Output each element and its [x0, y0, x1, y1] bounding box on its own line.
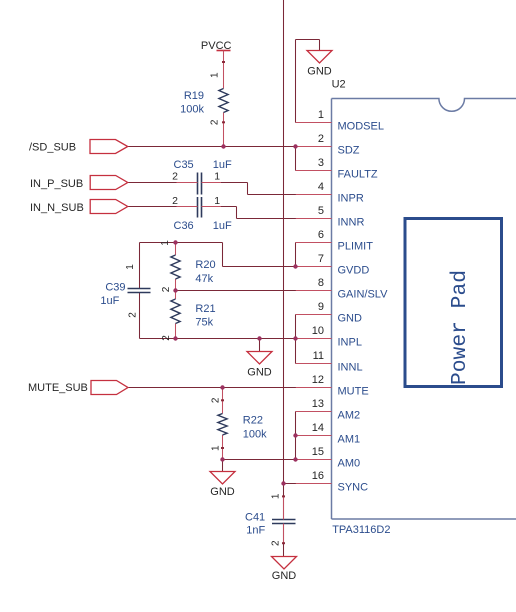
- svg-text:1uF: 1uF: [213, 159, 232, 171]
- svg-text:1uF: 1uF: [213, 220, 232, 232]
- svg-text:15: 15: [312, 446, 324, 458]
- svg-text:1uF: 1uF: [100, 295, 119, 307]
- svg-text:5: 5: [318, 205, 324, 217]
- svg-text:TPA3116D2: TPA3116D2: [332, 524, 390, 536]
- svg-text:MUTE_SUB: MUTE_SUB: [28, 382, 88, 394]
- svg-text:2: 2: [161, 335, 172, 341]
- svg-text:PLIMIT: PLIMIT: [338, 241, 374, 253]
- svg-text:GVDD: GVDD: [338, 265, 370, 277]
- svg-text:IN_N_SUB: IN_N_SUB: [30, 202, 84, 214]
- svg-text:AM1: AM1: [338, 434, 361, 446]
- svg-text:1: 1: [210, 72, 221, 78]
- svg-text:1: 1: [271, 493, 282, 499]
- svg-text:100k: 100k: [243, 429, 267, 441]
- svg-text:R19: R19: [184, 90, 204, 102]
- svg-text:GND: GND: [272, 570, 297, 582]
- svg-text:SYNC: SYNC: [338, 482, 369, 494]
- svg-text:7: 7: [318, 253, 324, 265]
- svg-text:C36: C36: [174, 220, 194, 232]
- svg-text:MUTE: MUTE: [338, 386, 369, 398]
- svg-text:Power Pad: Power Pad: [448, 270, 472, 385]
- svg-text:R20: R20: [195, 259, 215, 271]
- svg-text:16: 16: [312, 470, 324, 482]
- svg-text:2: 2: [271, 540, 282, 546]
- svg-text:IN_P_SUB: IN_P_SUB: [30, 178, 83, 190]
- svg-text:2: 2: [128, 312, 139, 318]
- svg-text:3: 3: [318, 157, 324, 169]
- svg-text:/SD_SUB: /SD_SUB: [29, 141, 76, 153]
- svg-text:R22: R22: [243, 415, 263, 427]
- svg-text:11: 11: [313, 350, 324, 362]
- svg-text:1nF: 1nF: [246, 525, 265, 537]
- svg-text:INPR: INPR: [338, 193, 364, 205]
- svg-text:100k: 100k: [180, 103, 204, 115]
- svg-text:C35: C35: [174, 159, 194, 171]
- svg-text:PVCC: PVCC: [201, 40, 232, 52]
- svg-text:GND: GND: [210, 486, 235, 498]
- svg-text:1: 1: [160, 240, 171, 246]
- svg-text:GND: GND: [247, 367, 272, 379]
- svg-text:GND: GND: [338, 313, 363, 325]
- svg-text:2: 2: [172, 195, 178, 207]
- svg-text:2: 2: [210, 119, 221, 125]
- svg-text:47k: 47k: [195, 273, 213, 285]
- svg-text:14: 14: [312, 422, 324, 434]
- svg-text:9: 9: [318, 301, 324, 313]
- svg-text:INNL: INNL: [338, 362, 363, 374]
- svg-text:2: 2: [211, 397, 222, 403]
- svg-text:2: 2: [318, 133, 324, 145]
- svg-text:INNR: INNR: [338, 217, 365, 229]
- svg-text:12: 12: [312, 374, 324, 386]
- svg-text:1: 1: [211, 445, 222, 451]
- svg-text:75k: 75k: [195, 317, 213, 329]
- svg-text:MODSEL: MODSEL: [338, 121, 384, 133]
- svg-text:2: 2: [161, 286, 172, 292]
- svg-text:GAIN/SLV: GAIN/SLV: [338, 289, 389, 301]
- svg-text:SDZ: SDZ: [338, 145, 360, 157]
- svg-text:4: 4: [318, 181, 324, 193]
- svg-text:10: 10: [312, 325, 324, 337]
- svg-text:C41: C41: [245, 512, 265, 524]
- svg-text:1: 1: [214, 170, 220, 182]
- svg-text:GND: GND: [307, 65, 332, 77]
- svg-text:1: 1: [214, 195, 220, 207]
- svg-text:13: 13: [312, 398, 324, 410]
- svg-text:INPL: INPL: [338, 337, 362, 349]
- svg-text:6: 6: [318, 229, 324, 241]
- svg-text:FAULTZ: FAULTZ: [338, 169, 378, 181]
- svg-text:U2: U2: [332, 79, 346, 91]
- svg-text:1: 1: [318, 109, 324, 121]
- svg-text:R21: R21: [195, 303, 215, 315]
- svg-text:8: 8: [318, 277, 324, 289]
- svg-text:AM2: AM2: [338, 410, 361, 422]
- svg-text:1: 1: [125, 264, 136, 270]
- svg-text:2: 2: [172, 170, 178, 182]
- svg-text:C39: C39: [105, 282, 125, 294]
- svg-text:AM0: AM0: [338, 458, 361, 470]
